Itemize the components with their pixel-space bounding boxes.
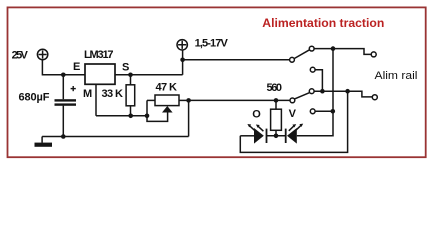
svg-text:Alim rail: Alim rail [375,70,418,82]
svg-text:33 K: 33 K [102,88,124,100]
svg-text:1,5-17V: 1,5-17V [195,37,229,49]
svg-text:S: S [122,62,129,74]
svg-text:E: E [73,61,80,73]
svg-text:M: M [83,88,92,100]
svg-text:LM317: LM317 [84,49,114,61]
svg-text:O: O [252,108,261,120]
svg-text:Alimentation traction: Alimentation traction [262,16,384,30]
svg-text:680µF: 680µF [19,91,50,103]
svg-text:47 K: 47 K [156,81,178,93]
svg-text:V: V [289,108,297,120]
svg-text:25V: 25V [12,50,29,62]
svg-text:560: 560 [267,82,283,94]
